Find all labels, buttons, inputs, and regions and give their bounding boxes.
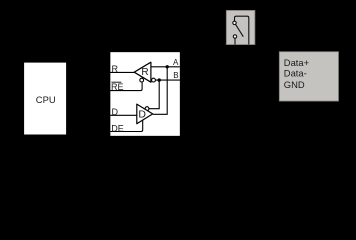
svg-text:DE: DE [111,123,124,133]
junction dot on node B [158,78,161,81]
svg-text:RE: RE [111,82,124,92]
svg-text:D: D [138,108,146,120]
CPU block [24,62,67,135]
wire node A (receiver + input to box edge) [151,66,180,68]
terminal block (Data+ / Data- / GND) [279,52,338,101]
switch bottom terminal lead [234,38,236,44]
RS-485 transceiver box [110,52,181,137]
junction dot on node A [166,65,169,68]
wire D (driver input from left edge) [110,114,137,116]
wire A drop (node A down to driver output) [153,67,167,115]
switch wire bracket (top terminal around to bottom) [235,16,249,44]
termination switch box [226,10,255,44]
svg-text:B: B [173,71,178,80]
svg-text:A: A [173,58,179,67]
wire B drop (node B down to driver inverting output bubble) [149,80,159,109]
receiver triangle R [134,62,151,82]
svg-text:GND: GND [284,79,305,90]
driver inverting output bubble [145,107,149,111]
wire DE (driver enable from left edge) [110,120,143,131]
wire node B (bubble to box edge) [155,79,180,81]
svg-text:Data+: Data+ [284,57,310,68]
wire RE (left edge to bubble) [110,82,142,90]
switch top terminal [233,21,236,24]
pin label RE with overline [111,82,124,92]
svg-text:Data-: Data- [284,68,307,79]
driver triangle D [137,104,153,124]
wire R (receiver output to left edge) [110,71,134,73]
svg-text:CPU: CPU [36,94,56,105]
svg-text:R: R [112,64,119,74]
RE enable bubble (active low) [140,78,144,82]
svg-text:R: R [141,67,148,78]
svg-text:D: D [112,107,119,117]
switch bottom terminal [233,35,236,38]
switch lever (open) [236,24,244,36]
receiver inverting input bubble (B) [152,78,156,82]
